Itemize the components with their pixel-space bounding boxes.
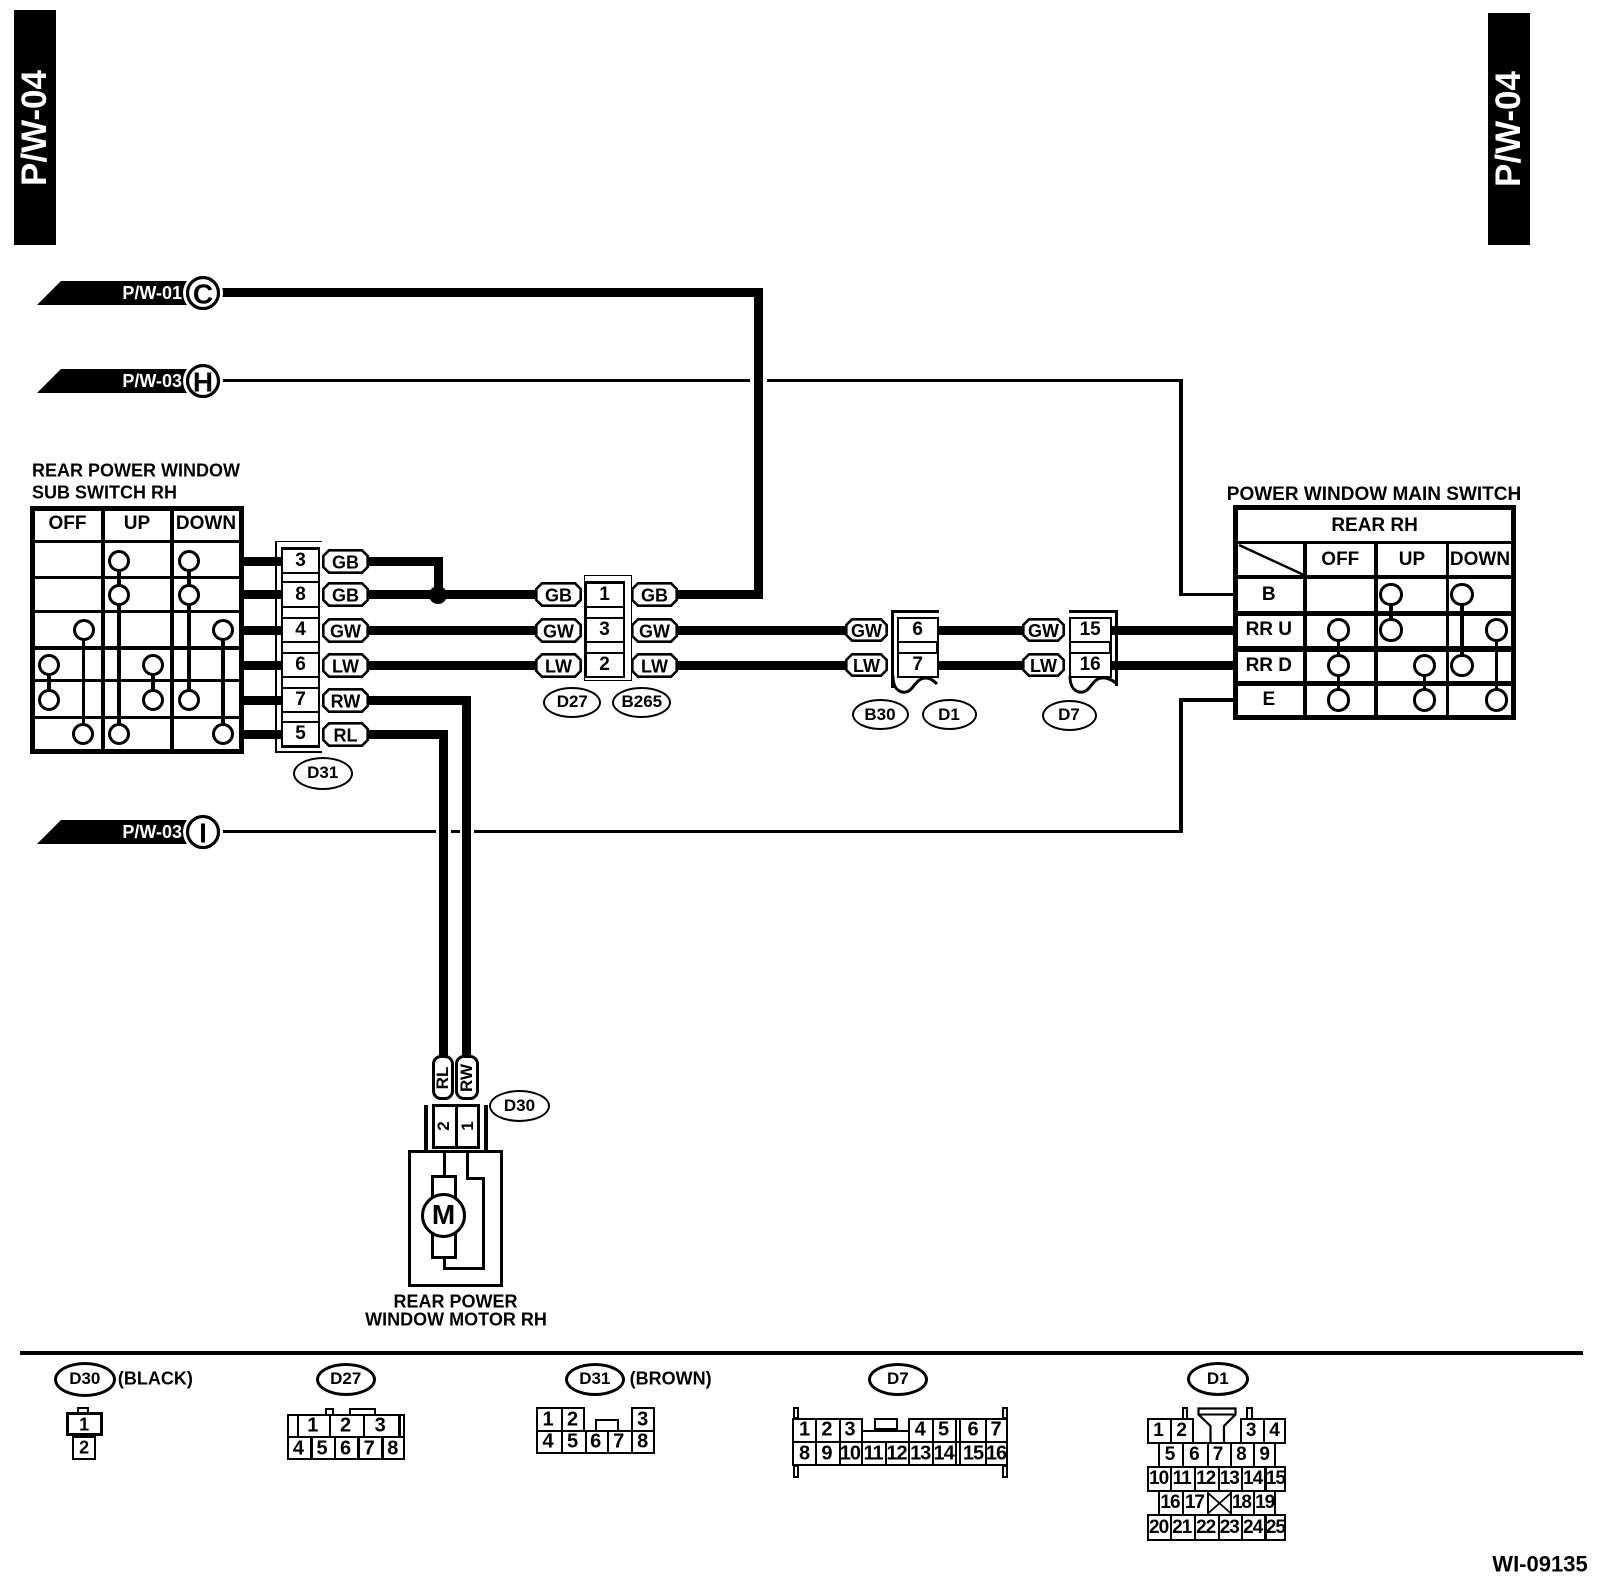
svg-text:I: I bbox=[199, 817, 207, 848]
svg-text:GB: GB bbox=[332, 552, 359, 572]
svg-text:GW: GW bbox=[543, 621, 574, 641]
svg-text:GW: GW bbox=[851, 621, 882, 641]
svg-text:LW: LW bbox=[545, 656, 572, 676]
svg-text:LW: LW bbox=[1030, 656, 1057, 676]
svg-text:P/W-01: P/W-01 bbox=[122, 283, 182, 303]
svg-text:H: H bbox=[193, 366, 213, 397]
svg-text:RW: RW bbox=[331, 691, 361, 711]
svg-text:GW: GW bbox=[330, 621, 361, 641]
svg-text:LW: LW bbox=[853, 656, 880, 676]
svg-text:GB: GB bbox=[545, 586, 572, 606]
svg-text:P/W-03: P/W-03 bbox=[122, 371, 182, 391]
svg-text:GW: GW bbox=[639, 621, 670, 641]
svg-text:P/W-03: P/W-03 bbox=[122, 822, 182, 842]
svg-text:GB: GB bbox=[641, 586, 668, 606]
svg-text:C: C bbox=[193, 278, 213, 309]
svg-text:LW: LW bbox=[332, 656, 359, 676]
svg-text:GB: GB bbox=[332, 586, 359, 606]
svg-text:LW: LW bbox=[641, 656, 668, 676]
svg-text:RL: RL bbox=[334, 725, 358, 745]
svg-text:GW: GW bbox=[1028, 621, 1059, 641]
